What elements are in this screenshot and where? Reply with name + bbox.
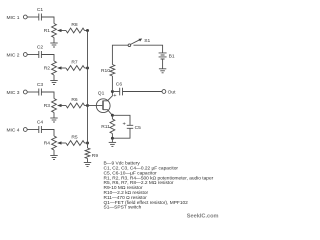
node source/R11/C5 [111, 114, 114, 117]
ground below R2 [50, 80, 57, 82]
wire pot R2 to ground [53, 75, 55, 81]
svg-text:MIC 2: MIC 2 [6, 52, 19, 58]
svg-text:MIC 1: MIC 1 [6, 15, 19, 21]
junction node channel 3 [86, 104, 89, 107]
switch S1 (SPST) [128, 44, 131, 47]
wire drain node to R10 [111, 76, 113, 92]
svg-text:Out: Out [168, 89, 177, 95]
wiper arrow of R1 [60, 30, 67, 32]
svg-text:MIC 3: MIC 3 [6, 90, 19, 96]
wire pot R1 to ground [53, 38, 55, 44]
svg-text:S1—SPST switch: S1—SPST switch [104, 205, 142, 211]
potentiometer R4 [52, 136, 57, 150]
resistor R10 [110, 65, 115, 77]
svg-text:C4: C4 [37, 120, 44, 126]
wire jack to C2 [27, 54, 38, 56]
wire R8 to bus [85, 30, 88, 32]
wiper arrow of R4 [60, 142, 67, 144]
svg-text:R8: R8 [71, 22, 78, 28]
ground below R1 [50, 42, 57, 44]
resistor R11 [110, 119, 115, 134]
svg-text:Q1: Q1 [98, 90, 105, 96]
wire pot R4 to ground [53, 150, 55, 156]
wire R9 to ground [87, 159, 89, 163]
svg-text:R2: R2 [44, 66, 51, 72]
input jack J2 [23, 53, 27, 57]
wire C1 to pot R1 [41, 17, 54, 24]
svg-text:C6: C6 [116, 81, 123, 87]
potentiometer R3 [52, 99, 57, 113]
svg-text:R11: R11 [101, 124, 110, 130]
wire R11 to bottom node [111, 134, 113, 139]
potentiometer R1 [52, 24, 57, 38]
ground below R4 [50, 155, 57, 157]
svg-text:R10: R10 [101, 68, 110, 74]
wire C2 to pot R2 [41, 55, 54, 62]
svg-text:+: + [113, 93, 116, 99]
wire S1 to battery B1 [134, 45, 163, 53]
wire jack to C4 [27, 129, 38, 131]
svg-text:C1: C1 [37, 7, 44, 13]
wire drain node to C6 [112, 91, 119, 93]
output jack [162, 90, 166, 94]
ground below B1 [159, 68, 166, 70]
svg-text:R4: R4 [44, 141, 51, 147]
wire pot R3 to ground [53, 113, 55, 119]
svg-text:R7: R7 [71, 59, 78, 65]
wire R10 to switch S1 [112, 45, 128, 64]
ground below R3 [50, 117, 57, 119]
wire C6 to output jack [123, 91, 162, 93]
svg-text:R3: R3 [44, 103, 51, 109]
wire jack to C3 [27, 91, 38, 93]
svg-text:B1: B1 [169, 54, 175, 60]
ground below R9 [84, 162, 91, 164]
svg-text:+: + [123, 122, 126, 128]
wire R5 to bus [85, 142, 88, 144]
capacitor C2 [39, 51, 42, 58]
summing resistor R8 [66, 28, 85, 33]
wire C3 to pot R3 [41, 92, 54, 99]
Q1 source lead [103, 110, 112, 116]
summing resistor R6 [66, 103, 85, 108]
capacitor C3 [39, 89, 42, 96]
wire bus to R9 [87, 143, 89, 148]
Q1 drain lead [103, 92, 112, 101]
wire B1 to ground [162, 59, 164, 69]
input jack J1 [23, 15, 27, 19]
svg-text:R5: R5 [71, 134, 78, 140]
svg-text:SeekIC.com: SeekIC.com [187, 214, 219, 220]
summing resistor R5 [66, 141, 85, 146]
ground below R11 [109, 141, 116, 143]
summing bus wire [87, 31, 89, 144]
svg-text:C2: C2 [37, 45, 44, 51]
capacitor C1 [39, 14, 42, 21]
capacitor C5 branch wires [112, 115, 130, 138]
junction node channel 2 [86, 67, 89, 70]
wiper arrow of R3 [60, 105, 67, 107]
wire C4 to pot R4 [41, 130, 54, 137]
battery B1 [159, 53, 167, 59]
potentiometer R2 [52, 61, 57, 75]
input jack J3 [23, 90, 27, 94]
wiper arrow of R2 [60, 67, 67, 69]
svg-text:S1: S1 [144, 38, 150, 44]
wire bottom node to ground [111, 138, 113, 142]
input jack J4 [23, 128, 27, 132]
svg-text:R9: R9 [92, 153, 99, 159]
svg-text:MIC 4: MIC 4 [6, 127, 19, 133]
svg-text:C3: C3 [37, 82, 44, 88]
wire jack to C1 [27, 16, 38, 18]
transistor Q1 (JFET MPF102) [96, 99, 110, 113]
svg-text:R6: R6 [71, 97, 78, 103]
capacitor C4 [39, 126, 42, 133]
capacitor C5 [127, 125, 133, 128]
svg-text:C5: C5 [135, 125, 142, 131]
capacitor C6 [120, 88, 123, 96]
wire R6 to bus [85, 105, 88, 107]
wire bus to Q1 gate [88, 105, 103, 107]
junction node channel 4 [86, 142, 89, 145]
junction node channel 1 [86, 29, 89, 32]
node drain/C6/R10 [111, 90, 114, 93]
resistor R9 [85, 148, 90, 159]
summing resistor R7 [66, 66, 85, 71]
wire source node to R11 [111, 115, 113, 119]
node R11/C5 bottom [111, 137, 114, 140]
svg-text:R1: R1 [44, 28, 51, 34]
wire R7 to bus [85, 67, 88, 69]
